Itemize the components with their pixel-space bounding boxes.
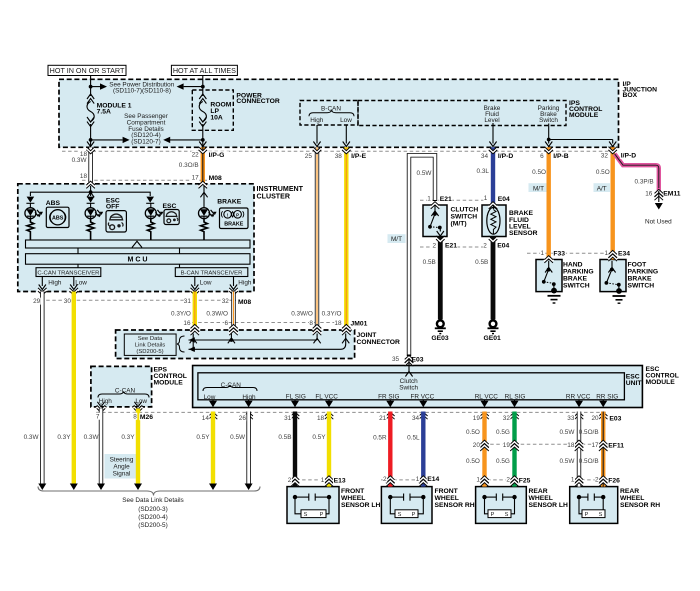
svg-text:10A: 10A (210, 114, 223, 121)
svg-text:S: S (505, 512, 509, 518)
svg-text:F33: F33 (553, 251, 565, 258)
svg-text:Low: Low (204, 394, 216, 401)
svg-text:E21: E21 (445, 243, 457, 250)
svg-text:8: 8 (309, 320, 313, 327)
svg-text:BRAKE: BRAKE (224, 222, 244, 228)
svg-text:See Data Link Details: See Data Link Details (122, 497, 183, 504)
svg-text:I/P-G: I/P-G (209, 152, 225, 159)
svg-text:SWITCH: SWITCH (628, 282, 655, 289)
svg-text:0.5W: 0.5W (559, 429, 575, 436)
svg-text:JOINT: JOINT (357, 332, 378, 339)
svg-text:18: 18 (80, 173, 88, 180)
svg-text:CONNECTOR: CONNECTOR (357, 339, 401, 346)
svg-text:GE03: GE03 (431, 335, 449, 342)
svg-text:0.5W: 0.5W (230, 434, 246, 441)
svg-text:E04: E04 (497, 243, 509, 250)
svg-text:SENSOR RH: SENSOR RH (435, 502, 475, 509)
svg-text:30: 30 (64, 298, 72, 305)
svg-text:0.5O: 0.5O (596, 169, 610, 176)
svg-text:I/P-D: I/P-D (498, 153, 514, 160)
svg-text:P: P (236, 212, 239, 217)
svg-text:0.3P/B: 0.3P/B (635, 178, 654, 185)
svg-text:0.5B: 0.5B (475, 259, 488, 266)
svg-text:BOX: BOX (623, 92, 638, 99)
svg-text:SWITCH: SWITCH (451, 214, 478, 221)
svg-text:0.5B: 0.5B (278, 434, 291, 441)
svg-text:0.3W: 0.3W (72, 157, 88, 164)
svg-text:17: 17 (591, 442, 599, 449)
svg-text:RL VCC: RL VCC (475, 393, 499, 400)
svg-text:E03: E03 (412, 356, 424, 363)
svg-text:0.5R: 0.5R (373, 434, 387, 441)
svg-text:2: 2 (288, 477, 292, 484)
svg-text:ESC: ESC (163, 203, 177, 210)
svg-text:PARKING: PARKING (563, 268, 594, 275)
svg-text:JM01: JM01 (351, 320, 368, 327)
svg-text:8: 8 (133, 413, 137, 420)
svg-text:HOT AT ALL TIMES: HOT AT ALL TIMES (173, 66, 236, 75)
svg-text:38: 38 (335, 153, 343, 160)
svg-text:Low: Low (200, 279, 212, 286)
svg-text:0.3W: 0.3W (24, 434, 40, 441)
svg-text:(SD200-4): (SD200-4) (138, 514, 167, 521)
svg-text:0.5O: 0.5O (532, 169, 546, 176)
svg-text:18: 18 (334, 320, 342, 327)
svg-text:19: 19 (503, 442, 511, 449)
svg-text:1: 1 (416, 476, 420, 483)
svg-text:GE01: GE01 (484, 335, 502, 342)
svg-text:P: P (491, 512, 495, 518)
svg-text:M08: M08 (238, 299, 251, 306)
svg-text:HOT IN ON OR START: HOT IN ON OR START (50, 66, 125, 75)
svg-text:21: 21 (379, 415, 387, 422)
svg-text:F25: F25 (519, 477, 531, 484)
svg-text:1: 1 (484, 195, 488, 202)
svg-text:E13: E13 (334, 477, 346, 484)
svg-text:ABS: ABS (46, 200, 61, 207)
svg-text:(SD200-3): (SD200-3) (138, 506, 167, 513)
svg-text:Low: Low (75, 279, 87, 286)
svg-text:FOOT: FOOT (628, 261, 648, 268)
svg-text:20: 20 (473, 442, 481, 449)
svg-text:Link Details: Link Details (135, 343, 166, 349)
svg-text:0.3Y/O: 0.3Y/O (171, 311, 191, 318)
svg-text:0.3Y: 0.3Y (57, 434, 71, 441)
svg-text:29: 29 (33, 298, 41, 305)
svg-text:CLUTCH: CLUTCH (451, 207, 479, 214)
svg-text:0.3Y/O: 0.3Y/O (322, 311, 342, 318)
svg-text:1: 1 (321, 477, 325, 484)
svg-text:0.5O: 0.5O (466, 458, 480, 465)
svg-text:0.3W: 0.3W (84, 434, 100, 441)
svg-text:0.5G: 0.5G (496, 429, 510, 436)
svg-text:0.5O/B: 0.5O/B (579, 458, 599, 465)
svg-text:26: 26 (239, 415, 247, 422)
svg-text:B-CAN: B-CAN (321, 106, 341, 113)
svg-text:0.5B: 0.5B (423, 259, 436, 266)
svg-text:7: 7 (96, 413, 100, 420)
svg-text:20: 20 (591, 415, 599, 422)
svg-text:P: P (320, 512, 324, 518)
svg-text:BRAKE: BRAKE (217, 199, 241, 206)
svg-text:(SD110-7)(SD110-8): (SD110-7)(SD110-8) (113, 88, 171, 95)
svg-text:Low: Low (135, 398, 147, 405)
svg-text:M/T: M/T (391, 236, 402, 243)
svg-text:0.3W/O: 0.3W/O (206, 311, 228, 318)
svg-text:0.5W: 0.5W (559, 458, 575, 465)
svg-text:High: High (242, 394, 256, 401)
svg-text:0.5O/B: 0.5O/B (579, 429, 599, 436)
svg-text:31: 31 (184, 298, 192, 305)
svg-text:Signal: Signal (113, 470, 131, 477)
svg-text:2: 2 (506, 477, 510, 484)
svg-text:SENSOR RH: SENSOR RH (620, 502, 660, 509)
svg-text:18: 18 (317, 415, 325, 422)
svg-text:14: 14 (202, 415, 210, 422)
svg-text:2: 2 (383, 476, 387, 483)
svg-text:16: 16 (645, 190, 653, 197)
svg-text:0.5L: 0.5L (407, 434, 420, 441)
svg-text:Low: Low (340, 117, 352, 124)
svg-text:RL SIG: RL SIG (505, 393, 526, 400)
svg-text:M26: M26 (140, 414, 153, 421)
svg-text:ABS: ABS (52, 215, 64, 221)
svg-text:M08: M08 (209, 175, 222, 182)
svg-text:35: 35 (392, 356, 400, 363)
svg-text:0.3L: 0.3L (477, 168, 490, 175)
svg-text:FR VCC: FR VCC (411, 393, 435, 400)
svg-text:2: 2 (595, 477, 599, 484)
svg-text:I/P-E: I/P-E (351, 153, 367, 160)
svg-text:MODULE: MODULE (646, 379, 676, 386)
svg-text:EM11: EM11 (663, 191, 681, 198)
svg-text:SWITCH: SWITCH (563, 282, 590, 289)
svg-text:25: 25 (305, 153, 313, 160)
svg-text:P: P (412, 512, 416, 518)
svg-text:0.5Y: 0.5Y (196, 434, 210, 441)
svg-text:(SD200-5): (SD200-5) (136, 349, 163, 355)
svg-text:1: 1 (604, 250, 608, 257)
svg-text:B-CAN TRANSCEIVER: B-CAN TRANSCEIVER (181, 270, 243, 276)
svg-text:High: High (48, 279, 62, 286)
svg-text:RR VCC: RR VCC (566, 393, 591, 400)
svg-text:0.5O: 0.5O (466, 429, 480, 436)
svg-text:1: 1 (571, 477, 575, 484)
svg-text:32: 32 (503, 415, 511, 422)
svg-text:32: 32 (222, 298, 230, 305)
svg-text:S: S (398, 512, 402, 518)
svg-text:0.5Y: 0.5Y (312, 434, 326, 441)
svg-text:I/P-B: I/P-B (553, 153, 569, 160)
svg-text:P: P (585, 512, 589, 518)
svg-text:(M/T): (M/T) (451, 221, 467, 228)
svg-text:18: 18 (567, 442, 575, 449)
svg-text:17: 17 (192, 175, 200, 182)
svg-text:FL VCC: FL VCC (315, 393, 338, 400)
svg-text:34: 34 (412, 415, 420, 422)
svg-text:FR SIG: FR SIG (378, 393, 399, 400)
svg-text:E03: E03 (609, 416, 621, 423)
svg-text:0.5W: 0.5W (417, 170, 433, 177)
svg-text:E14: E14 (427, 476, 439, 483)
svg-text:HAND: HAND (563, 261, 583, 268)
svg-text:34: 34 (481, 153, 489, 160)
svg-text:See Data: See Data (138, 336, 163, 342)
svg-text:6: 6 (540, 153, 544, 160)
svg-text:CONNECTOR: CONNECTOR (236, 98, 280, 105)
svg-text:(SD200-5): (SD200-5) (138, 522, 167, 529)
svg-text:F26: F26 (608, 477, 620, 484)
svg-text:BRAKE: BRAKE (563, 275, 587, 282)
svg-text:OFF: OFF (106, 203, 120, 210)
svg-text:32: 32 (601, 153, 609, 160)
svg-text:0.3Y: 0.3Y (121, 434, 135, 441)
svg-text:Switch: Switch (399, 385, 418, 392)
svg-text:C-CAN TRANSCEIVER: C-CAN TRANSCEIVER (37, 270, 99, 276)
svg-text:I/P-D: I/P-D (621, 153, 637, 160)
svg-text:22: 22 (192, 151, 200, 158)
svg-text:33: 33 (567, 415, 575, 422)
svg-text:RR SIG: RR SIG (596, 393, 618, 400)
svg-text:0.3O/B: 0.3O/B (179, 162, 199, 169)
svg-text:BRAKE: BRAKE (628, 275, 652, 282)
svg-text:Not Used: Not Used (645, 218, 672, 225)
svg-text:High: High (238, 279, 252, 286)
svg-text:0.3W/O: 0.3W/O (291, 311, 313, 318)
svg-text:E04: E04 (498, 196, 510, 203)
svg-text:FL SIG: FL SIG (286, 393, 306, 400)
svg-text:2: 2 (483, 242, 487, 249)
svg-text:SENSOR LH: SENSOR LH (341, 502, 381, 509)
svg-text:1: 1 (427, 196, 431, 203)
svg-text:High: High (310, 117, 324, 124)
svg-text:PARKING: PARKING (628, 268, 659, 275)
svg-text:UNIT: UNIT (626, 380, 643, 387)
svg-text:A/T: A/T (597, 185, 607, 192)
svg-text:1: 1 (540, 250, 544, 257)
svg-text:S: S (304, 512, 308, 518)
svg-text:0.5G: 0.5G (496, 458, 510, 465)
svg-text:SENSOR LH: SENSOR LH (529, 502, 569, 509)
svg-text:1: 1 (476, 477, 480, 484)
svg-text:Switch: Switch (539, 117, 558, 124)
svg-text:MODULE: MODULE (569, 112, 599, 119)
svg-text:E21: E21 (440, 196, 452, 203)
svg-text:31: 31 (284, 415, 292, 422)
svg-text:SENSOR: SENSOR (509, 230, 538, 237)
svg-text:CLUSTER: CLUSTER (257, 192, 291, 200)
svg-text:6: 6 (224, 320, 228, 327)
svg-text:2: 2 (432, 242, 436, 249)
svg-text:EF11: EF11 (608, 442, 624, 449)
svg-text:19: 19 (473, 415, 481, 422)
svg-text:MODULE: MODULE (154, 380, 184, 387)
svg-text:(SD120-7): (SD120-7) (131, 139, 160, 146)
svg-text:M/T: M/T (533, 185, 544, 192)
svg-text:E34: E34 (618, 251, 630, 258)
svg-text:16: 16 (183, 320, 191, 327)
svg-text:Level: Level (484, 117, 499, 124)
svg-text:7.5A: 7.5A (97, 109, 111, 116)
svg-text:M C U: M C U (127, 256, 147, 264)
svg-text:S: S (599, 512, 603, 518)
